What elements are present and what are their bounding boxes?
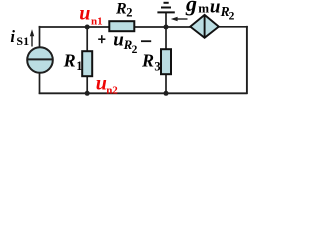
resistor R1 — [82, 51, 92, 76]
arrow gm·uR2 current direction (left) — [171, 17, 188, 21]
svg-text:n1: n1 — [91, 15, 103, 27]
minus sign of uR2 — [141, 40, 151, 42]
svg-text:u: u — [79, 3, 90, 25]
wire R1 column bottom — [86, 77, 88, 94]
resistor R2 — [109, 21, 134, 31]
node junction dot (R3 bottom) — [164, 91, 169, 96]
svg-text:2: 2 — [229, 11, 235, 23]
arrow iS1 direction (up) — [30, 29, 34, 46]
label un2 (red) — [96, 73, 119, 97]
wire right top segment — [219, 26, 248, 28]
label uR2 (voltage across R2) — [113, 29, 137, 56]
current source iS1 — [27, 47, 53, 73]
resistor R3 — [161, 49, 171, 74]
dependent current source gm·uR2 (diamond U1) — [190, 15, 219, 38]
svg-text:2: 2 — [132, 44, 138, 56]
svg-text:u: u — [113, 29, 124, 50]
svg-text:R: R — [63, 50, 76, 70]
wire right vertical — [246, 26, 248, 94]
ground — [157, 3, 174, 28]
svg-text:1: 1 — [76, 59, 82, 73]
wire top (node un1 row) — [39, 26, 191, 28]
node (ground/R3) junction dot — [164, 25, 169, 30]
label R1 — [63, 50, 83, 73]
label R3 — [141, 51, 161, 74]
svg-text:3: 3 — [154, 60, 160, 74]
plus sign of uR2 — [98, 35, 105, 43]
svg-text:R: R — [115, 1, 127, 18]
wire R1 column top — [86, 27, 88, 51]
wire R3 column top — [165, 27, 167, 49]
svg-text:g: g — [185, 0, 197, 16]
svg-text:u: u — [210, 0, 221, 17]
wire left vertical — [39, 26, 41, 94]
svg-text:2: 2 — [126, 6, 132, 20]
label un1 (red) — [79, 3, 102, 28]
svg-text:n2: n2 — [106, 84, 118, 96]
node un2 junction dot (R1 bottom) — [85, 91, 90, 96]
svg-text:S1: S1 — [16, 34, 29, 48]
svg-text:R: R — [141, 51, 154, 71]
node un1 junction dot — [85, 25, 90, 30]
wire R3 column bottom — [165, 75, 167, 94]
svg-text:m: m — [198, 1, 209, 16]
label R2 — [115, 1, 132, 20]
label gm uR2 — [185, 0, 235, 23]
wire bottom — [39, 92, 248, 94]
svg-text:i: i — [10, 27, 15, 46]
